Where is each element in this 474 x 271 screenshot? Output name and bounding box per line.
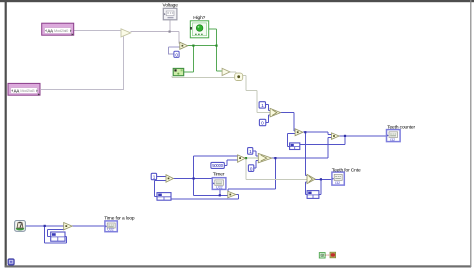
junction on Tick Count output	[44, 225, 46, 227]
numeric constant 1 (timer increment)	[151, 173, 156, 179]
wire: stop terminal to loop condition	[325, 254, 330, 256]
wire: comparator 2 branch down to Select 3 selector	[246, 158, 307, 179]
feedback node 1	[290, 143, 300, 150]
DAQmx physical channel constant 2 (Mod2/ai3)	[8, 83, 40, 95]
wire: feedback node 2 output to Add 2 lower input	[154, 181, 166, 197]
junction at Timer terminal stub	[219, 194, 221, 196]
wire: timer value up to comparator 2	[194, 156, 238, 178]
comparator 2 (timer elapsed?)	[238, 155, 246, 162]
wire: tick branch into feedback node 4	[45, 226, 67, 243]
svg-text:0: 0	[261, 121, 264, 126]
wire: timer value down to reset add	[194, 179, 228, 196]
svg-text:0: 0	[250, 166, 253, 171]
numeric constant 0 (select false)	[259, 119, 265, 125]
wire: Timer terminal bottom stub	[219, 190, 221, 196]
svg-text:High?: High?	[193, 15, 205, 21]
wire: constant 1 to Select 1 true input	[266, 105, 271, 111]
wire: channel constant 1 output to convert triangle	[74, 30, 122, 32]
wire: Select 1 output to Add 1	[281, 113, 296, 131]
svg-text:1: 1	[153, 175, 156, 180]
wire: comparator 2 output to Select 2	[245, 157, 258, 159]
wire: Select 3 output branch into feedback node 3	[319, 179, 321, 194]
wire: Multiply output to Teeth counter terminal	[339, 135, 386, 137]
svg-text:Mod2/ai3: Mod2/ai3	[20, 88, 34, 93]
convert / merge triangle	[121, 29, 131, 37]
numeric constant 1 (select true)	[259, 102, 265, 108]
wire: Add 1 output to Multiply	[303, 132, 332, 134]
wire: boolean down to feedback latch box	[184, 46, 194, 72]
wire: Tick Count output to Subtract	[25, 225, 63, 227]
wire: feedback node 3 output to Select 3 lower input	[305, 182, 307, 194]
svg-text:1: 1	[249, 149, 252, 154]
wire: Not gate output to And node	[230, 72, 236, 74]
wire: Voltage terminal stub	[169, 20, 171, 32]
junction at High? branch	[215, 45, 217, 47]
wire: feedback node 4 output to Subtract lower input	[47, 230, 63, 237]
window left border	[5, 2, 7, 267]
Subtract (loop time)	[64, 223, 72, 230]
window top border	[0, 0, 474, 2]
Time for a loop indicator terminal	[105, 221, 117, 232]
wire: latch box lower output to And node	[172, 76, 235, 78]
High? boolean indicator terminal	[190, 21, 208, 38]
wire: constant 1 to Select 2 true input	[253, 151, 259, 156]
feedback node 4	[51, 232, 65, 241]
Voltage indicator terminal	[163, 8, 177, 19]
junction under Voltage terminal	[169, 31, 171, 33]
wire: High? terminal link	[209, 29, 217, 46]
Tick Count (ms) node	[15, 221, 26, 232]
stop boolean terminal icon	[319, 253, 325, 258]
svg-text:1: 1	[261, 103, 264, 108]
wire: timer increment constant to Add 2	[156, 175, 166, 177]
wire: constant 0 to Select 1 false input	[266, 115, 270, 122]
Select 3 node	[307, 174, 315, 183]
svg-text:Voltage: Voltage	[163, 2, 179, 8]
wire: Select 3 output to Teeth for Cnte terminal	[315, 178, 332, 180]
Teeth for Cnte indicator terminal	[332, 172, 344, 185]
Select 2 node	[258, 154, 272, 163]
svg-text:Mod2/ai0: Mod2/ai0	[54, 28, 69, 33]
wire: constant 0 to comparator lower input	[169, 47, 181, 55]
boolean latch node	[173, 68, 184, 75]
reset add triangle	[228, 191, 236, 198]
feedback node 2	[157, 193, 171, 201]
svg-text:I32: I32	[390, 138, 395, 142]
wire: convert triangle output to comparator, via junction under Voltage	[131, 32, 181, 44]
wire: channel constant 2 output up to convert triangle	[41, 37, 124, 91]
wire: constant 50000 to comparator 2 lower input	[224, 160, 237, 165]
wire: boolean down to Not gate	[217, 46, 223, 72]
diagram navigation icon (bottom left)	[8, 259, 14, 265]
feedback node 3	[307, 191, 319, 199]
svg-text:0: 0	[175, 52, 178, 57]
loop condition stop sign icon	[330, 252, 336, 258]
Select 1 node	[270, 108, 281, 117]
wire: counter value down to Select 3 upper input	[305, 132, 307, 176]
Not gate	[222, 68, 230, 75]
svg-text:Time for a loop: Time for a loop	[104, 215, 135, 221]
junction on Select 3 output	[320, 178, 322, 180]
junction on Multiply output	[344, 135, 346, 137]
wire: constant 0 to Select 2 false input	[254, 161, 259, 168]
wire: Select 2 output to Multiply lower input	[272, 137, 332, 158]
wire: Add 2 output to Timer terminal	[173, 178, 212, 180]
junction on comparator output	[192, 45, 194, 47]
Timer indicator terminal	[212, 178, 226, 190]
junction on comparator 2 output	[245, 157, 247, 159]
svg-text:I32: I32	[335, 181, 340, 185]
Add 1 (increment)	[295, 129, 303, 136]
wire: feedback node 1 output to Add 1 lower input	[287, 134, 295, 147]
junction on Add 2 output	[193, 177, 195, 179]
wire: Multiply output branch into feedback node 1	[300, 136, 345, 145]
wire: Select 2 branch down to Add 3 upper input	[228, 158, 275, 192]
window right border	[470, 0, 471, 267]
svg-text:Teeth counter: Teeth counter	[387, 124, 415, 130]
numeric constant 1 (select2 true)	[248, 148, 253, 155]
Teeth counter indicator terminal	[387, 130, 401, 142]
wire: Subtract output to Time for a loop terminal	[72, 225, 105, 227]
numeric constant 50000	[211, 162, 224, 168]
wire: reset add output looped into feedback node 2	[171, 194, 239, 198]
svg-text:Timer: Timer	[213, 172, 225, 178]
svg-text:U32: U32	[216, 186, 223, 190]
numeric constant 0 (select2 false)	[248, 165, 253, 172]
svg-text:U32: U32	[107, 228, 114, 232]
wire: And node output routed to Select 1	[243, 75, 271, 112]
svg-text:50000: 50000	[212, 163, 224, 168]
svg-text:Teeth for Cnte: Teeth for Cnte	[332, 167, 361, 173]
Add 2 (timer accumulate)	[166, 175, 173, 183]
DAQmx physical channel constant 1 (Mod2/ai0)	[42, 23, 74, 35]
And node	[235, 73, 243, 80]
window bottom border	[5, 265, 472, 267]
wire: comparator output (boolean green)	[188, 45, 217, 47]
comparator Greater?	[180, 42, 188, 49]
Multiply node	[332, 133, 340, 139]
numeric constant 0 (threshold)	[174, 51, 179, 57]
junction on Add 1 output	[304, 131, 306, 133]
junction on Select 2 output	[274, 157, 276, 159]
